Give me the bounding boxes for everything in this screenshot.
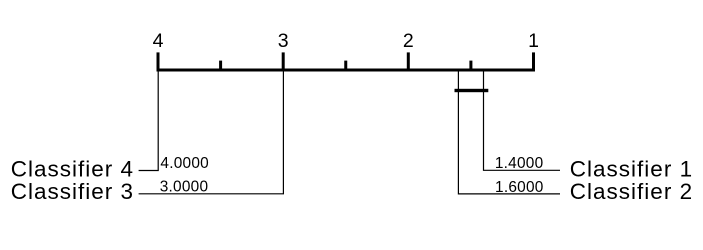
svg-text:4.0000: 4.0000 [160, 155, 209, 172]
svg-text:1: 1 [528, 30, 539, 52]
axis main line [157, 69, 536, 72]
classifier 1 drop line [484, 72, 561, 171]
svg-text:2: 2 [403, 30, 414, 52]
svg-text:3.0000: 3.0000 [160, 179, 209, 196]
svg-text:Classifier 3: Classifier 3 [11, 179, 134, 204]
svg-text:Classifier 1: Classifier 1 [570, 156, 693, 181]
svg-text:3: 3 [278, 30, 289, 52]
clique bar connecting classifier 1 and classifier 2 [455, 89, 489, 92]
svg-text:1.6000: 1.6000 [495, 179, 544, 196]
svg-text:1.4000: 1.4000 [495, 155, 544, 172]
minor tick 2.5 [344, 61, 347, 70]
major tick rank 3 [282, 52, 285, 69]
minor tick 3.5 [219, 61, 222, 70]
minor tick 1.5 [469, 61, 472, 70]
svg-text:Classifier 4: Classifier 4 [11, 156, 134, 181]
svg-text:4: 4 [153, 30, 164, 52]
svg-text:Classifier 2: Classifier 2 [570, 179, 693, 204]
major tick rank 2 [407, 52, 410, 69]
classifier 2 drop line [458, 72, 560, 194]
major tick rank 1 [532, 52, 535, 69]
classifier 4 drop line [139, 72, 159, 171]
major tick rank 4 [157, 52, 160, 69]
classifier 3 drop line [139, 72, 284, 194]
